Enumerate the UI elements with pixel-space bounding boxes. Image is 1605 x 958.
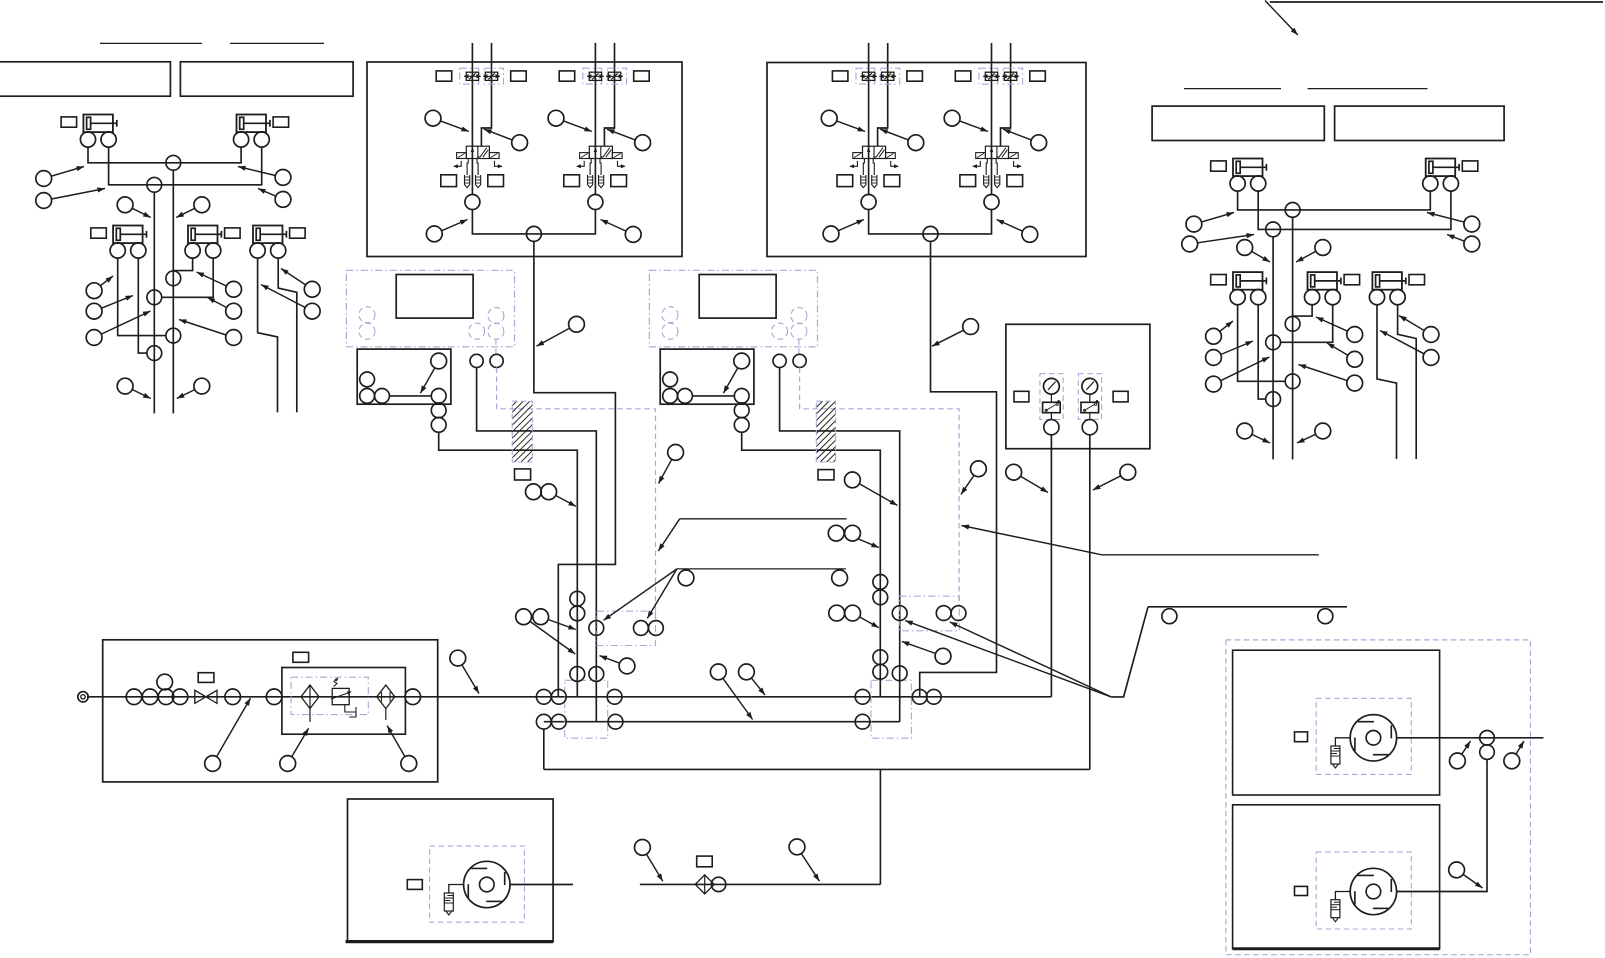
cylinder CYL3 xyxy=(113,226,143,244)
node circle valve box1 outlet xyxy=(526,226,541,241)
node balloon B37 xyxy=(837,121,866,132)
node balloon B38 xyxy=(880,129,908,140)
valve V3 label rect bottom-right xyxy=(884,175,900,187)
valve V2 flow control FC2a xyxy=(583,68,602,84)
node balloon B64 xyxy=(860,617,879,628)
node balloon B39 xyxy=(960,121,989,132)
blower 1 intake muffler xyxy=(1331,746,1340,764)
blower assembly dashed enclosure xyxy=(1226,640,1531,955)
node balloon B24 xyxy=(1221,341,1253,355)
flag B leader to pair xyxy=(647,569,677,619)
valve V2 pilot wire a xyxy=(594,43,596,195)
flag B leader to node xyxy=(604,569,677,620)
title underline right-2 xyxy=(1308,88,1428,90)
air dryer unit AD2 dashed enclosure xyxy=(649,270,817,347)
pump VP1 intake wire xyxy=(449,885,464,894)
node circle N4 xyxy=(147,290,162,305)
pressure switch PS2 port xyxy=(1089,413,1091,420)
wire cylinder C5 port-b xyxy=(278,258,297,412)
wire riser x=1292 right group xyxy=(1292,217,1294,459)
cylinder CYL10 port circles xyxy=(1369,290,1384,305)
FRL dashed box xyxy=(291,677,368,714)
pressure gauge G2 dashed enclosure xyxy=(1078,374,1101,420)
node balloon B51 xyxy=(859,484,897,506)
cylinder CYL9 xyxy=(1308,272,1338,290)
title box right-2 xyxy=(1335,106,1505,140)
wire cylinder C5 port-a xyxy=(258,258,278,412)
air dryer AD1 drain box xyxy=(357,349,451,404)
cylinder CYL3 port circles xyxy=(110,243,125,258)
blower 2 dashed box xyxy=(1316,852,1411,929)
blower 1 dashed box xyxy=(1316,698,1411,774)
valve V1 flow control FC1b xyxy=(484,68,503,84)
node circle valve box2 outlet xyxy=(923,226,938,241)
FRL unit box xyxy=(103,640,438,782)
node balloon B30 xyxy=(1380,331,1424,354)
air dryer AD2 drain circles xyxy=(663,372,678,387)
node circle N2 xyxy=(147,177,162,192)
node balloon B20 xyxy=(1447,235,1464,242)
node balloon B18 xyxy=(1198,235,1255,243)
wire cylinder C9 port-b xyxy=(1281,305,1333,343)
FRL circle above xyxy=(157,674,173,690)
wire bus2 left group xyxy=(109,147,262,185)
valve V4 manual override right xyxy=(1014,161,1020,166)
pipe dashed dryer1 to manifold xyxy=(497,368,656,621)
node balloon B7 xyxy=(100,276,113,286)
cylinder CYL9 port circles xyxy=(1305,290,1320,305)
flag C leader xyxy=(962,526,1102,555)
air dryer AD2 dashed ports right xyxy=(791,308,807,324)
valve V1 pilot wire b xyxy=(481,43,491,146)
pipe main line 1 xyxy=(87,696,1051,698)
node circles dryer2 drain line xyxy=(873,575,888,590)
node balloon B17 xyxy=(1202,213,1235,222)
blower 2 outlet wire xyxy=(1397,891,1440,893)
node balloon B36 xyxy=(607,129,635,140)
valve V2 label rect left xyxy=(559,71,575,81)
pump VP1 intake muffler xyxy=(444,893,453,911)
valve V4 solenoid right xyxy=(1009,153,1019,159)
FRL inner label rect xyxy=(293,652,309,662)
node balloon B67 xyxy=(751,678,765,695)
valve V4 label rect left xyxy=(955,71,971,81)
pump VP1 label rect xyxy=(407,880,422,890)
shutoff valve label rect xyxy=(198,673,214,683)
wire line2-line3 riser xyxy=(543,729,545,769)
bulkhead H1 label rect xyxy=(515,469,531,480)
node circles dryer1 outlet line xyxy=(589,621,604,636)
node balloon B59 xyxy=(462,665,479,694)
valve V2 exhaust wires xyxy=(590,159,591,176)
node balloon B70 xyxy=(1462,741,1471,754)
node balloon B40 xyxy=(1003,129,1031,140)
node circle N6 xyxy=(147,346,162,361)
node balloon B33 xyxy=(440,121,469,132)
node circle N3 xyxy=(166,271,181,286)
valve V4 pilot wire a xyxy=(991,43,993,195)
node balloon B69 xyxy=(801,854,819,882)
node balloon B50 xyxy=(556,496,576,507)
wire gauge1 drop xyxy=(1050,435,1052,697)
node balloon B65 xyxy=(902,641,936,653)
node balloon B44 xyxy=(997,220,1023,232)
valve V3 label rect bottom-left xyxy=(837,175,853,187)
node balloon B45 xyxy=(537,328,570,346)
manifold left dashed box upper xyxy=(597,611,656,645)
node circle line2 right manifold xyxy=(855,714,870,729)
flag A balloon pair xyxy=(828,525,844,541)
cylinder CYL1 xyxy=(83,115,113,133)
air dryer AD1 port circles xyxy=(470,354,483,367)
node balloon B6 xyxy=(176,208,195,217)
node balloon B28 xyxy=(1299,365,1348,381)
node circles dryer1 drain line xyxy=(570,591,585,606)
valve V2 muffler M2b xyxy=(599,175,604,188)
valve V1 solenoid left xyxy=(457,153,467,159)
valve V1 label rect right xyxy=(511,71,527,81)
node balloon B27 xyxy=(1327,343,1348,355)
node balloon B54 xyxy=(1021,476,1049,492)
valve V4 muffler M4b xyxy=(995,175,1000,188)
flag A pair leader xyxy=(859,539,879,548)
flag A line xyxy=(680,518,847,520)
cylinder CYL6 xyxy=(1233,159,1263,177)
air dryer AD2 dashed ports left xyxy=(662,307,678,323)
pipe main line 2 xyxy=(544,721,900,723)
check valve CV1 xyxy=(695,875,714,894)
valve V3 flow control FC3a xyxy=(856,68,875,84)
node balloon B5 xyxy=(132,208,151,217)
node balloon B42 xyxy=(601,220,627,232)
air dryer AD1 drain circles xyxy=(360,372,375,387)
flag C line xyxy=(1102,554,1319,556)
wire valve box1 output bus xyxy=(472,210,595,234)
bulkhead H2 label rect xyxy=(818,470,834,480)
wire dryer2 drain drop xyxy=(742,432,881,697)
node circles line1 left manifold xyxy=(536,689,551,704)
valve V2 manual override right xyxy=(618,161,624,166)
cylinder CYL1 port circles xyxy=(80,132,95,147)
pipe check-valve line xyxy=(640,883,881,885)
node balloon B23 xyxy=(1220,321,1233,331)
valve V4 flow control FC4a xyxy=(979,68,998,84)
valve V3 exhaust wires xyxy=(863,159,864,176)
gauge panel label rect right xyxy=(1113,391,1128,402)
node circles line2 left manifold xyxy=(536,714,551,729)
blower 1 impeller xyxy=(1350,715,1396,761)
node circle N11 xyxy=(1285,374,1300,389)
node circle N7 xyxy=(1285,203,1300,218)
node balloon B56 xyxy=(217,698,251,757)
pressure gauge G1 xyxy=(1044,378,1060,394)
wire cylinder C10 port-b xyxy=(1398,305,1417,459)
node circle N8 xyxy=(1266,222,1281,237)
pump VP1 outlet wire xyxy=(510,884,573,886)
valve V4 output port xyxy=(984,195,999,210)
wire cylinder C9 port-a xyxy=(1293,305,1313,316)
node circle pair right manifold xyxy=(936,606,951,621)
blower 1 outlet wire xyxy=(1397,737,1544,739)
wire dryer1 outlet drop xyxy=(477,368,597,722)
valve V2 manual override left xyxy=(578,161,584,166)
node circle N9 xyxy=(1285,316,1300,331)
valve V4 body xyxy=(985,146,1008,158)
pressure switch PS1 port xyxy=(1050,413,1052,420)
valve V4 pilot wire b xyxy=(1001,43,1011,146)
flag A leader xyxy=(658,519,679,551)
node balloon B68 xyxy=(647,854,663,881)
node balloon B35 xyxy=(563,121,592,132)
air dryer AD1 dashed ports right xyxy=(488,308,504,324)
node balloon B49 xyxy=(526,484,542,500)
top-right reference arrow xyxy=(1265,1,1298,36)
valve V1 muffler M1a xyxy=(465,175,470,188)
wire riser x=154 left group xyxy=(153,192,155,413)
valve V2 muffler M2a xyxy=(588,175,593,188)
node balloon B25 xyxy=(1221,357,1270,381)
node balloon B15 xyxy=(132,390,151,399)
valve V3 pilot wire a xyxy=(868,43,870,195)
node balloon B66 xyxy=(723,678,753,719)
cylinder CYL8 port circles xyxy=(1230,290,1245,305)
node balloon B19 xyxy=(1427,213,1464,223)
manifold left dashed box lower xyxy=(565,680,608,738)
node circles dryer2 outlet line xyxy=(892,606,907,621)
node balloon B21 xyxy=(1252,251,1270,262)
banner line xyxy=(1148,606,1347,608)
wire valve box2 output bus xyxy=(869,210,992,234)
pressure switch PS1 xyxy=(1050,394,1052,402)
air dryer AD2 port circles xyxy=(773,354,786,367)
node balloon B26 xyxy=(1316,317,1348,331)
valve V3 manual override right xyxy=(891,161,897,166)
node circle N10 xyxy=(1266,335,1281,350)
node balloon B1 xyxy=(51,167,84,177)
valve V4 muffler M4a xyxy=(984,175,989,188)
node circle after CV1 xyxy=(711,877,725,891)
valve V3 solenoid left xyxy=(853,153,863,159)
node circle after valve xyxy=(225,689,241,705)
valve V2 body xyxy=(589,146,612,158)
node balloon B22 xyxy=(1296,251,1316,262)
node balloon B8 xyxy=(101,296,133,309)
valve V1 output port xyxy=(465,195,480,210)
node balloon B53 xyxy=(961,475,974,494)
node circle N1 xyxy=(166,155,181,170)
shutoff valve xyxy=(195,690,206,703)
cylinder CYL7 xyxy=(1426,159,1456,177)
check valve CV1 label rect xyxy=(697,856,713,867)
node balloon B16 xyxy=(177,390,195,399)
valve manifold box 1 xyxy=(367,62,682,257)
supply connector xyxy=(78,692,88,702)
blower 1 label rect xyxy=(1295,732,1308,742)
node circles blower outlet xyxy=(1480,731,1495,746)
node balloon B32 xyxy=(1297,434,1316,443)
valve V3 flow control FC3b xyxy=(880,68,899,84)
FRL inner box xyxy=(282,668,406,735)
valve V4 label rect bottom-left xyxy=(960,175,976,187)
node balloon B63 xyxy=(829,605,845,621)
blower box 1 xyxy=(1233,650,1440,795)
FRL inlet circles xyxy=(126,689,142,705)
cylinder CYL4 xyxy=(188,226,218,244)
wire blower2 riser xyxy=(1440,759,1487,891)
blower box 2 xyxy=(1233,805,1440,949)
banner circles xyxy=(1162,609,1177,624)
valve V3 body xyxy=(863,146,886,158)
cylinder CYL6 port circles xyxy=(1230,176,1245,191)
valve V2 label rect right xyxy=(634,71,650,81)
air dryer AD2 label box xyxy=(699,275,776,319)
valve V3 output port xyxy=(861,195,876,210)
node balloon B29 xyxy=(1399,316,1424,331)
gauge panel box xyxy=(1006,324,1150,448)
node balloon B60 xyxy=(530,621,575,654)
wire cylinder C3 port-a xyxy=(118,258,166,336)
regulator R1 xyxy=(332,688,349,704)
air dryer unit AD1 dashed enclosure xyxy=(346,270,514,347)
blower 2 impeller xyxy=(1350,868,1396,914)
cylinder CYL5 xyxy=(253,226,283,244)
valve V3 label rect right xyxy=(907,71,923,81)
node balloon B57 xyxy=(292,728,309,757)
valve V4 label rect right xyxy=(1030,71,1046,81)
pump VP1 impeller xyxy=(464,861,510,907)
banner diagonal xyxy=(1111,607,1148,697)
gauge panel label rect left xyxy=(1014,391,1029,402)
valve V3 manual override left xyxy=(851,161,857,166)
title box right-1 xyxy=(1152,106,1324,140)
valve V1 label rect bottom-right xyxy=(488,175,504,187)
node balloon B14 xyxy=(261,285,305,308)
node balloon B9 xyxy=(101,311,150,334)
manifold right dashed box lower xyxy=(871,680,911,738)
air dryer AD1 drain outlet circles xyxy=(431,403,446,418)
node balloon B47 xyxy=(420,368,434,393)
blower 2 label rect xyxy=(1295,886,1308,895)
top-right reference line xyxy=(1270,1,1603,3)
cylinder CYL8 xyxy=(1233,272,1263,290)
pressure gauge G2 xyxy=(1082,378,1098,394)
valve V3 muffler M3a xyxy=(861,175,866,188)
valve V1 muffler M1b xyxy=(476,175,481,188)
wire gauge2 drop xyxy=(1089,435,1091,770)
valve V2 solenoid right xyxy=(612,153,622,159)
node balloon B41 xyxy=(442,220,468,231)
node balloon B52 xyxy=(659,459,672,483)
air dryer AD2 drain outlet circles xyxy=(734,403,749,418)
node balloon B58 xyxy=(387,726,405,757)
cylinder CYL2 port circles xyxy=(234,132,249,147)
node balloon B48 xyxy=(723,368,737,393)
air dryer AD1 label box xyxy=(396,275,473,319)
wire valve box2 supply drop xyxy=(920,241,997,696)
cylinder CYL2 xyxy=(237,115,267,133)
node balloon B62 xyxy=(600,656,620,664)
node balloon B55 xyxy=(1093,476,1121,490)
node balloon B2 xyxy=(52,189,106,200)
node circle after FRL xyxy=(405,689,421,705)
air dryer AD1 dashed ports left xyxy=(359,307,375,323)
cylinder CYL7 port circles xyxy=(1423,176,1438,191)
valve V2 pilot wire b xyxy=(604,43,614,146)
valve V2 flow control FC2b xyxy=(607,68,626,84)
valve V1 solenoid right xyxy=(489,153,499,159)
node balloon B11 xyxy=(208,298,227,308)
flag B line xyxy=(677,568,846,570)
title underline right-1 xyxy=(1184,88,1281,90)
blower 2 intake muffler xyxy=(1331,900,1340,918)
valve V2 output port xyxy=(588,195,603,210)
title box left-1 xyxy=(0,62,170,96)
wire riser x=173 left group xyxy=(172,170,174,413)
title underline left-2 xyxy=(230,42,324,44)
wire dryer1 drain drop xyxy=(439,432,578,697)
wire bus1 left group xyxy=(88,147,241,163)
manifold right dashed box upper xyxy=(899,596,959,631)
flag B balloons xyxy=(678,570,694,586)
pipe main line 3 xyxy=(544,768,1090,770)
wire cylinder C4 port-a xyxy=(173,258,192,271)
pressure gauge G1 dashed enclosure xyxy=(1040,374,1063,420)
wire bus2 right group xyxy=(1258,191,1451,229)
node balloon B31 xyxy=(1252,434,1270,443)
valve V2 solenoid left xyxy=(580,153,590,159)
valve V1 manual override right xyxy=(495,161,501,166)
valve V4 manual override left xyxy=(974,161,980,166)
valve V4 solenoid left xyxy=(976,153,986,159)
node balloon B72 xyxy=(1463,874,1482,888)
cylinder CYL4 port circles xyxy=(185,243,200,258)
node balloon B12 xyxy=(179,320,226,336)
valve V1 flow control FC1a xyxy=(460,68,479,84)
wire cylinder C3 port-b xyxy=(138,258,147,353)
wire cylinder C10 port-a xyxy=(1377,305,1397,459)
node circles line1 right manifold xyxy=(855,689,870,704)
wire valve box1 supply drop xyxy=(534,241,616,696)
valve V3 pilot wire b xyxy=(878,43,888,146)
node circle N12 xyxy=(1266,392,1281,407)
node circle N5 xyxy=(166,328,181,343)
valve V1 manual override left xyxy=(455,161,461,166)
valve V2 label rect bottom-right xyxy=(611,175,627,187)
title underline left-1 xyxy=(100,42,202,44)
node balloon B46 xyxy=(932,330,964,346)
valve V4 flow control FC4b xyxy=(1003,68,1022,84)
node balloon B4 xyxy=(258,189,276,197)
valve V1 label rect left xyxy=(436,71,452,81)
blower box 2 base line xyxy=(1233,947,1440,950)
pressure switch PS2 xyxy=(1089,394,1091,402)
valve V4 exhaust wires xyxy=(986,159,987,176)
wire bus1 right group xyxy=(1238,191,1431,210)
valve V1 pilot wire a xyxy=(471,43,473,195)
wire riser x=1273 right group xyxy=(1272,237,1274,460)
wire cylinder C8 port-b xyxy=(1258,305,1266,399)
node circle pair left manifold xyxy=(634,621,649,636)
node balloon B61 xyxy=(548,620,576,630)
valve V1 label rect bottom-left xyxy=(441,175,457,187)
node balloon B10 xyxy=(197,272,227,286)
wire cylinder C4 port-b xyxy=(162,258,214,297)
valve V1 exhaust wires xyxy=(467,159,468,176)
valve V1 body xyxy=(466,146,489,158)
vacuum pump box VP1 xyxy=(348,799,554,942)
wire cylinder C8 port-a xyxy=(1238,305,1286,382)
node balloon B13 xyxy=(281,269,306,285)
